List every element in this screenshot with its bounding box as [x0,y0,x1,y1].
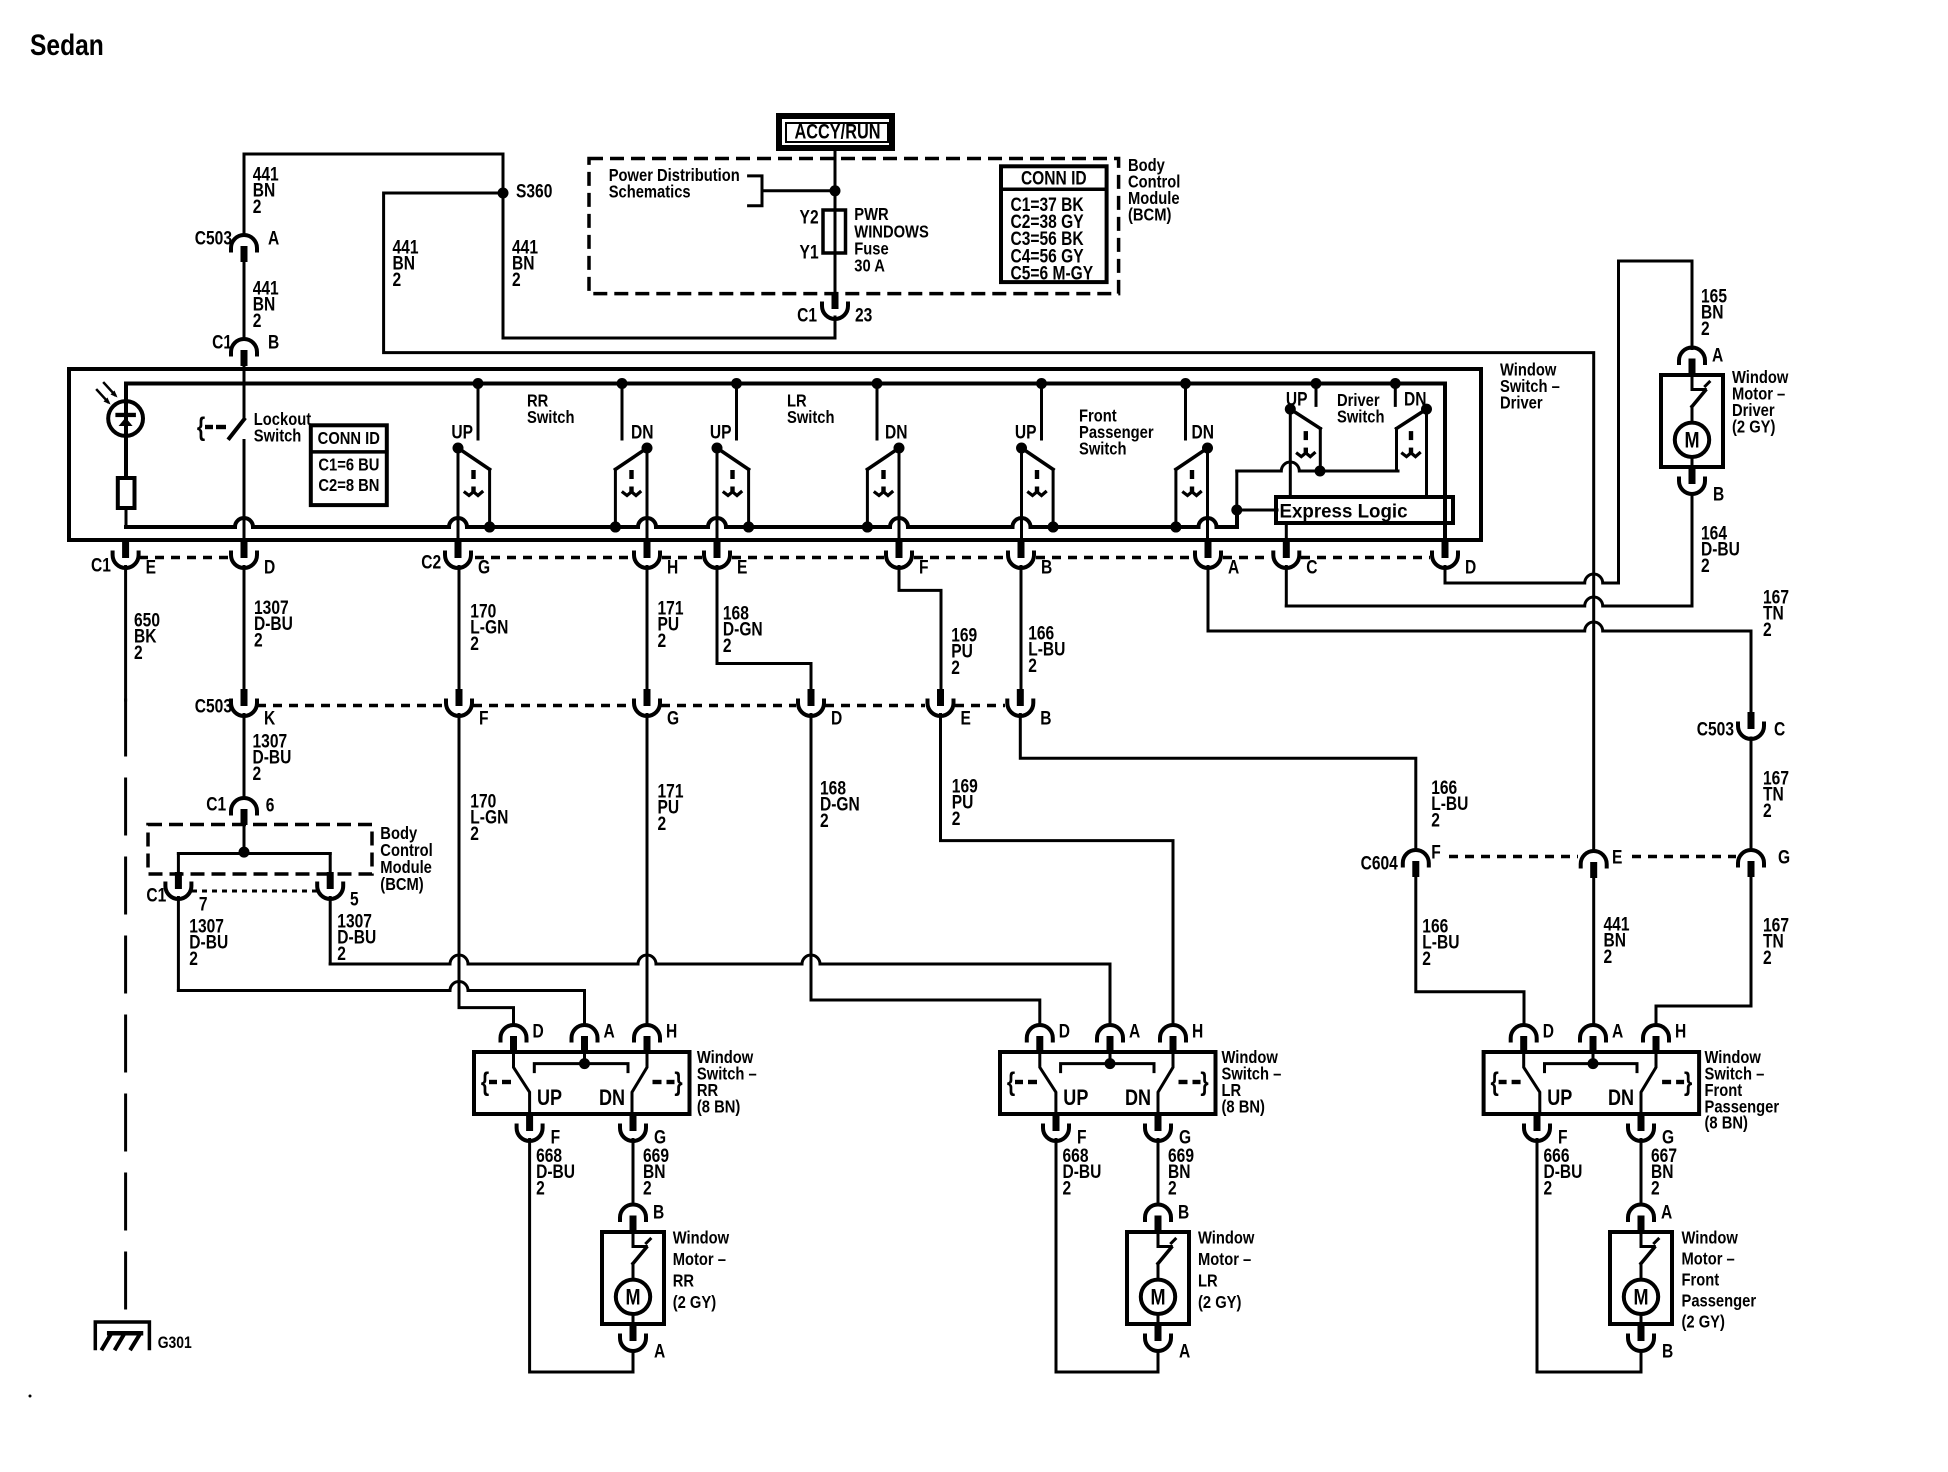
connector C503 pin C [1697,712,1786,740]
off-page reference bracket [749,176,835,206]
wire 168 D-GN (D row2 to LR D) [811,715,1040,1026]
wire 166 L-BU (C604 F to FP D) [1416,877,1524,1025]
svg-text:2: 2 [470,632,479,654]
wire label 170 L-GN 2 (lower) [470,790,508,844]
wire 441 BN (C604 E to FP A) [1592,878,1595,1025]
svg-text:2: 2 [1604,945,1613,967]
wire label 168 D-GN 2 (upper) [723,602,763,656]
junction dot (fuse feed tap) [830,185,841,196]
svg-text:G: G [1778,846,1790,868]
svg-text:Y2: Y2 [800,206,819,228]
wire label 167 TN 2 (lower) [1763,914,1789,968]
svg-text:C503: C503 [195,695,233,717]
LR switch UP half [712,384,755,542]
svg-text:2: 2 [1763,618,1772,640]
svg-text:{: { [1490,1068,1498,1098]
svg-text:B: B [1178,1201,1189,1223]
wire 168 D-GN (E to D row2) [717,567,811,690]
label LR Switch [787,391,835,427]
dashed connector line row 1 [139,556,1430,560]
svg-text:2: 2 [337,942,346,964]
label DN (driver) [1404,388,1426,410]
svg-text:UP: UP [451,421,473,443]
svg-text:}: } [674,1068,682,1098]
svg-text:C1: C1 [91,554,111,576]
svg-text:F: F [1431,841,1441,863]
wire label 171 PU 2 (lower) [658,780,684,834]
wire C1 23 down-left to S360 branch [244,154,835,338]
pin label Y1 [800,241,819,263]
svg-text:C604: C604 [1361,852,1399,874]
wire label 171 PU 2 (upper) [658,597,684,651]
svg-text:E: E [961,707,971,729]
svg-text:(8 BN): (8 BN) [1222,1097,1265,1117]
svg-text:G301: G301 [158,1334,192,1353]
wire label 441 BN 2 (below C503 A) [253,277,279,331]
driver switch common bar [1231,462,1398,516]
svg-text:2: 2 [1701,554,1710,576]
svg-text:Motor –: Motor – [1682,1249,1735,1269]
svg-text:C503: C503 [1697,718,1735,740]
svg-text:2: 2 [658,812,667,834]
wire 167 TN (C503 C to C604 G) [1750,738,1753,850]
svg-text:C1: C1 [206,793,226,815]
wire 1307 D-BU (D to K) [243,567,246,690]
label Body Control Module (BCM) lower [380,824,432,895]
svg-text:Window: Window [1682,1228,1739,1248]
svg-text:Motor –: Motor – [1198,1250,1251,1270]
svg-text:2: 2 [134,641,143,663]
svg-text:Switch: Switch [1337,407,1385,427]
svg-text:2: 2 [643,1177,652,1199]
wire label 167 TN 2 (mid) [1763,767,1789,821]
svg-text:{: { [197,413,205,443]
wire ACCY/RUN to fuse [834,148,837,210]
svg-text:2: 2 [253,309,262,331]
BCM dashed box (lower) [148,825,372,875]
svg-text:DN: DN [1192,421,1214,443]
svg-text:2: 2 [820,809,829,831]
svg-text:(8 BN): (8 BN) [1705,1113,1748,1133]
svg-text:UP: UP [537,1086,562,1110]
connector C1 pin 5 [317,872,359,910]
svg-text:2: 2 [253,762,262,784]
inner top bus [126,384,1445,542]
label RR Switch [527,391,575,427]
svg-text:CONN ID: CONN ID [318,429,380,449]
svg-text:2: 2 [536,1177,545,1199]
svg-text:2: 2 [393,268,402,290]
svg-text:2: 2 [1763,946,1772,968]
resistor [118,478,135,527]
svg-text:Express Logic: Express Logic [1280,501,1408,522]
svg-text:M: M [1633,1286,1648,1310]
svg-text:H: H [1675,1020,1686,1042]
svg-text:DN: DN [1404,388,1426,410]
svg-text:(8 BN): (8 BN) [697,1097,740,1117]
wire label 166 L-BU 2 (mid) [1431,776,1468,830]
svg-text:{: { [481,1068,489,1098]
svg-text:(2 GY): (2 GY) [1682,1312,1725,1332]
connector C1 pin 6 [206,793,274,825]
svg-text:DN: DN [1608,1086,1634,1110]
wire label 1307 D-BU 2 (upper) [254,596,293,650]
power node ACCY/RUN [779,116,892,148]
svg-text:2: 2 [254,629,263,651]
fuse PWR WINDOWS 30 A [823,210,846,253]
svg-text:B: B [1040,707,1051,729]
label Driver Switch [1337,391,1385,427]
svg-text:A: A [1179,1340,1191,1362]
svg-text:2: 2 [1544,1177,1553,1199]
svg-text:A: A [268,227,280,249]
svg-text:ACCY/RUN: ACCY/RUN [795,121,881,144]
svg-text:Front: Front [1682,1270,1720,1290]
svg-text:Switch: Switch [1079,439,1127,459]
svg-text:2: 2 [512,268,521,290]
svg-text:Driver: Driver [1500,393,1543,413]
svg-text:(BCM): (BCM) [1128,205,1171,225]
svg-text:CONN ID: CONN ID [1021,167,1087,189]
title Sedan [30,28,104,62]
svg-text:M: M [1150,1286,1165,1310]
svg-text:}: } [1684,1068,1692,1098]
window switch assembly box [69,369,1481,540]
svg-text:C5=6 M-GY: C5=6 M-GY [1011,262,1094,284]
splice S360 [498,180,553,202]
label PWR WINDOWS Fuse 30 A [854,205,929,276]
BCM internal bar [178,847,330,872]
dashed connector line row 2 [257,704,1005,708]
stray mark [29,1395,32,1398]
connector C604 pin E [1581,846,1623,878]
svg-text:Switch: Switch [254,426,302,446]
svg-text:LR: LR [1198,1271,1218,1291]
wire label 441 BN 2 (right of S360 drop) [512,236,538,290]
svg-text:B: B [1662,1340,1673,1362]
svg-text:RR: RR [673,1271,694,1291]
svg-text:Switch: Switch [527,408,575,428]
svg-text:F: F [479,707,489,729]
svg-text:G: G [667,707,679,729]
svg-text:A: A [1712,344,1724,366]
wire label 165 BN 2 [1701,285,1727,339]
ground G301 [95,1322,192,1352]
svg-text:D: D [1059,1020,1070,1042]
label Front Passenger Switch [1079,406,1154,458]
wire 170 L-GN (G to F) [458,567,461,690]
wire 171 PU (H to G) [646,567,649,690]
wire label 167 TN 2 (upper) [1763,586,1789,640]
svg-text:30 A: 30 A [854,256,885,276]
bottom bus junction dots [484,522,1181,533]
wire label 650 BK 2 [134,609,160,663]
window motor driver (2 GY) [1661,344,1789,505]
connector row C1/C2 (switch assembly) [91,541,1476,578]
svg-text:2: 2 [952,807,961,829]
svg-text:DN: DN [885,421,907,443]
dashed box Power Distribution Schematics [589,159,1119,294]
wire label 168 D-GN 2 (lower) [820,777,860,831]
wire 165 BN (D to motor A) [1445,261,1692,583]
label DN (FP) [1192,421,1214,443]
window switch RR assembly + motor RR [474,1020,757,1372]
window switch LR assembly + motor LR [1000,1020,1281,1372]
lockout switch [197,413,244,541]
svg-text:2: 2 [470,822,479,844]
Express Logic box [1276,497,1453,523]
svg-text:C2=8 BN: C2=8 BN [318,476,379,496]
label Power Distribution Schematics [609,166,740,202]
svg-text:2: 2 [723,634,732,656]
svg-text:C1: C1 [212,331,232,353]
label Lockout Switch [254,410,312,446]
svg-text:2: 2 [1028,654,1037,676]
wire 650 BK 2 (to ground) [124,567,127,1332]
svg-text:{: { [1007,1068,1015,1098]
wire fuse to connector C1 23 [834,253,837,294]
svg-text:M: M [1684,429,1699,453]
svg-text:A: A [1612,1020,1624,1042]
wire label 441 BN 2 (lower right) [1604,913,1630,967]
svg-text:23: 23 [855,304,873,326]
wire label 441 BN 2 (left of S360 drop) [393,236,419,290]
pin label Y2 [800,206,819,228]
wire 171 PU (G row2 to RR H) [646,715,649,1026]
svg-text:M: M [625,1286,640,1310]
connector C604 pin F [1361,841,1441,877]
wire label 166 L-BU 2 (upper) [1028,622,1065,676]
svg-text:Window: Window [1198,1228,1255,1248]
svg-text:2: 2 [1651,1177,1660,1199]
svg-text:K: K [264,707,276,729]
svg-text:Sedan: Sedan [30,28,104,62]
svg-text:D: D [831,707,842,729]
switch CONN ID table [311,425,387,505]
wire label 166 L-BU 2 (lower) [1422,915,1459,969]
svg-text:5: 5 [350,888,359,910]
svg-text:D: D [1543,1020,1554,1042]
wire 169 PU (E row2 to LR H) [941,715,1174,1026]
svg-text:A: A [654,1340,666,1362]
svg-text:Motor –: Motor – [673,1250,726,1270]
svg-text:2: 2 [658,629,667,651]
svg-text:2: 2 [1422,947,1431,969]
svg-text:(2 GY): (2 GY) [1198,1293,1241,1313]
label UP (driver) [1286,388,1308,410]
svg-text:2: 2 [1701,317,1710,339]
svg-text:Passenger: Passenger [1682,1291,1757,1311]
wire label 169 PU 2 (upper) [951,624,977,678]
svg-text:Switch: Switch [787,408,835,428]
wire 166 L-BU (B row2 to C604 F) [1020,715,1416,851]
connector C503 pin A [195,227,280,262]
dotted line C1 row (BCM) [192,890,317,893]
label DN (RR) [631,421,653,443]
svg-text:C1: C1 [797,304,817,326]
wire 166 L-BU (B to B row2) [1020,567,1023,690]
svg-text:H: H [666,1020,677,1042]
BCM CONN ID table [1001,166,1107,284]
wire 164 D-BU (C to motor B) [1286,494,1692,606]
wire label 1307 D-BU 2 (from pin 5) [337,910,376,964]
svg-text:(BCM): (BCM) [380,875,423,895]
svg-text:UP: UP [1547,1086,1572,1110]
label UP (FP) [1015,421,1037,443]
svg-text:2: 2 [189,947,198,969]
LR switch DN half [862,384,905,542]
svg-text:UP: UP [1286,388,1308,410]
label Body Control Module (BCM) [1128,156,1180,225]
wire 1307 D-BU (K to C1 6) [243,715,246,799]
svg-text:UP: UP [1015,421,1037,443]
svg-text:(2 GY): (2 GY) [673,1293,716,1313]
svg-text:D: D [264,556,275,578]
wire 1307 D-BU (C1 5 to LR A) [330,898,1110,1026]
svg-text:2: 2 [1063,1177,1072,1199]
wire label 169 PU 2 (lower) [952,775,978,829]
svg-text:C503: C503 [195,227,233,249]
svg-text:DN: DN [1125,1086,1151,1110]
svg-text:UP: UP [710,421,732,443]
svg-text:C1=6 BU: C1=6 BU [318,455,379,475]
connector C604 pin G [1738,846,1790,877]
svg-text:(2 GY): (2 GY) [1732,417,1775,437]
wire label 441 BN 2 (top left) [253,163,279,217]
Front Passenger switch UP half [1016,384,1059,542]
svg-text:7: 7 [199,893,208,915]
Front Passenger switch DN half [1170,384,1213,542]
svg-text:D: D [533,1020,544,1042]
svg-text:A: A [1129,1020,1141,1042]
wire Express Logic to connector C [1285,523,1288,541]
svg-text:A: A [1661,1201,1673,1223]
svg-text:D: D [1465,556,1476,578]
svg-text:C1: C1 [146,884,166,906]
svg-text:B: B [268,331,279,353]
svg-text:B: B [1713,483,1724,505]
inner bottom bus [126,510,1237,527]
connector C1 pin 7 [146,872,207,915]
wire label 164 D-BU 2 [1701,522,1740,576]
label Window Switch - Driver [1500,360,1560,412]
svg-text:A: A [604,1020,616,1042]
photodiode (illumination sensor) [97,383,143,478]
svg-text:2: 2 [253,195,262,217]
connector C1 pin B [212,331,279,366]
svg-text:UP: UP [1063,1086,1088,1110]
svg-text:Y1: Y1 [800,241,819,263]
svg-text:DN: DN [631,421,653,443]
wire label 1307 D-BU 2 (from pin 7) [189,915,228,969]
window switch Front Passenger assembly + motor FP [1484,1020,1780,1372]
svg-text:2: 2 [951,656,960,678]
label UP (RR) [451,421,473,443]
dashed connector line C604 [1449,855,1736,859]
wire label 170 L-GN 2 (upper) [470,600,508,654]
wire label 1307 D-BU 2 (mid) [253,730,292,784]
svg-text:2: 2 [1431,809,1440,831]
wire C1 B into switch box [243,366,246,419]
wire 169 PU (F to E row2) [899,567,941,690]
svg-text:6: 6 [266,794,275,816]
svg-text:2: 2 [1168,1177,1177,1199]
svg-text:B: B [653,1201,664,1223]
RR switch DN half [610,384,653,542]
label UP (LR) [710,421,732,443]
svg-text:}: } [1200,1068,1208,1098]
svg-text:H: H [1192,1020,1203,1042]
driver switch UP half [1285,384,1321,498]
svg-text:Schematics: Schematics [609,182,691,202]
svg-text:2: 2 [1763,799,1772,821]
svg-text:S360: S360 [516,180,552,202]
svg-text:E: E [1612,846,1622,868]
svg-text:C: C [1774,718,1786,740]
wire 170 L-GN (F row2 to RR D) [459,715,514,1026]
wire C1 6 into BCM [243,825,246,852]
connector C1 pin 23 [797,292,873,326]
wire top to C503 A [243,154,246,235]
wire C503 A to C1 B [243,262,246,339]
wire 441 BN left branch via S360 [384,193,1594,851]
wire 167 TN (A to C503 C) [1208,567,1751,713]
driver switch DN half [1395,384,1432,498]
connector row C503 [195,689,1052,729]
svg-text:C2: C2 [421,551,441,573]
label DN (LR) [885,421,907,443]
svg-text:Window: Window [673,1228,730,1248]
wire 1307 D-BU (C1 7 to RR A) [178,898,584,1026]
bus junction dots [473,378,1401,389]
RR switch UP half [453,384,496,542]
svg-text:DN: DN [599,1086,625,1110]
wire 167 TN (C604 G to FP H) [1656,877,1751,1025]
